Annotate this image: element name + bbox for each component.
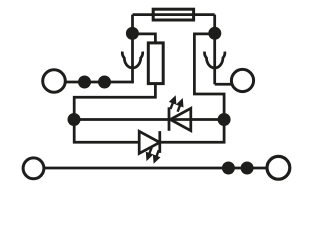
wire: dot to indicator top lead <box>133 34 156 44</box>
LED D1 upper: emission arrow 1 <box>169 95 177 109</box>
clamp contact dot 2 <box>98 76 111 89</box>
wire: indicator bottom lead down-left-down to LED rail <box>74 85 155 120</box>
node: rail dot right <box>218 113 231 126</box>
fuse clip contact left (hook) <box>122 52 142 68</box>
terminal circle left <box>43 70 66 93</box>
wire: fuse mid-line horizontal <box>133 13 215 16</box>
wire: bottom feed-through <box>44 167 266 170</box>
fuse clip contact right (hook) <box>204 52 224 68</box>
LED D2 lower: triangle pointing right <box>139 131 160 153</box>
fuse F1 body <box>153 9 193 20</box>
LED D1 upper: cathode bar <box>168 107 171 131</box>
clamp contact dot 1 <box>78 76 91 89</box>
LED D2 lower: emission arrow 2 <box>153 150 161 164</box>
clamp contact dot 4 <box>241 162 254 175</box>
wire: left fuse lead + contact stem vertical <box>131 15 134 84</box>
wire: right branch (dot left, down, right, down to rail) <box>194 34 224 120</box>
terminal circle right <box>231 69 253 91</box>
wire: left terminal wire <box>65 81 133 84</box>
node: rail dot left <box>68 113 81 126</box>
node: right junction dot <box>208 27 221 40</box>
terminal circle bottom-left <box>23 158 44 179</box>
node: left junction dot <box>126 27 139 40</box>
wire: LED bypass left (down from rail dot, right to lower LED) <box>74 120 139 143</box>
LED D2 lower: emission arrow 1 <box>146 148 154 162</box>
wire: right contact to terminal circle <box>215 83 233 86</box>
wire: LED rail horizontal <box>74 118 224 121</box>
LED D1 upper: emission arrow 2 <box>176 98 184 112</box>
indicator component (rectangle) <box>148 43 163 84</box>
LED D2 lower: cathode bar <box>158 131 161 153</box>
terminal circle bottom-right <box>267 156 290 179</box>
LED D1 upper: triangle pointing left <box>170 108 191 130</box>
wire: LED bypass right (from lower LED up to rail dot) <box>160 120 224 143</box>
clamp contact dot 3 <box>222 162 235 175</box>
wire: right fuse lead + contact stem vertical <box>213 15 216 85</box>
